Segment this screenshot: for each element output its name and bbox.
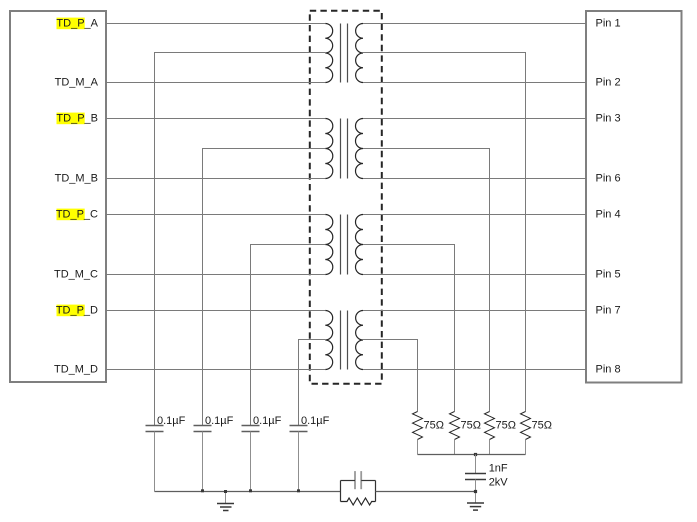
- svg-text:Pin 7: Pin 7: [596, 305, 621, 317]
- wire TD_P_C to T3 primary top: [106, 214, 325, 216]
- wire TD_M_C to T3 primary bottom: [106, 274, 325, 276]
- svg-text:Pin 5: Pin 5: [596, 269, 621, 281]
- junction C5 lead with snubber rail: [474, 490, 477, 493]
- svg-text:Pin 1: Pin 1: [596, 18, 621, 30]
- transformer T3 core: [341, 215, 348, 275]
- wire T3 secondary top to Pin 4: [363, 214, 586, 216]
- wire T2 secondary center tap to R2: [363, 149, 490, 412]
- capacitor C1 0.1uF plates: [146, 426, 164, 432]
- svg-text:TD_M_A: TD_M_A: [55, 77, 99, 89]
- wire C2 bottom lead to ground rail: [202, 432, 204, 492]
- svg-text:75Ω: 75Ω: [424, 420, 444, 432]
- wire R4 bottom lead: [417, 440, 419, 455]
- wire R2 bottom lead: [489, 440, 491, 455]
- svg-text:1nF: 1nF: [489, 463, 508, 475]
- junction on left ground rail x=202: [201, 489, 204, 492]
- wire TD_M_D to T4 primary bottom: [106, 369, 325, 371]
- wire TD_P_B to T2 primary top: [106, 118, 325, 120]
- capacitor C3 0.1uF plates: [242, 426, 260, 432]
- svg-text:TD_P_A: TD_P_A: [56, 18, 98, 30]
- svg-text:75Ω: 75Ω: [461, 420, 481, 432]
- wire T4 primary center tap to C4: [299, 340, 326, 426]
- transformer T2 primary winding: [325, 119, 333, 179]
- wire C3 bottom lead to ground rail: [250, 432, 252, 492]
- ground symbol (right, chassis): [467, 503, 484, 510]
- svg-text:TD_P_C: TD_P_C: [56, 209, 98, 221]
- transformer T3 secondary winding: [356, 215, 364, 275]
- wire TD_P_D to T4 primary top: [106, 310, 325, 312]
- wire T2 primary center tap to C2: [203, 149, 326, 426]
- capacitor C4 0.1uF plates: [290, 426, 308, 432]
- transformer T4 secondary winding: [356, 311, 363, 370]
- capacitor C2 0.1uF plates: [194, 426, 212, 432]
- resistor R2 75 ohm: [485, 412, 495, 440]
- svg-text:0.1µF: 0.1µF: [205, 415, 234, 427]
- wire TD_M_B to T2 primary bottom: [106, 178, 325, 180]
- wire T2 secondary top to Pin 3: [363, 118, 586, 120]
- transformer T4 primary winding: [325, 311, 332, 370]
- resistor R4 75 ohm: [413, 412, 423, 440]
- left device box: [10, 11, 106, 382]
- svg-text:2kV: 2kV: [489, 476, 509, 488]
- highlight for TD_P_D label: [57, 305, 85, 317]
- wire T3 secondary center tap to R3: [363, 245, 455, 412]
- wire R1 bottom lead: [525, 440, 527, 455]
- junction ground stub on left rail: [224, 490, 227, 493]
- svg-text:75Ω: 75Ω: [496, 420, 516, 432]
- junction on left ground rail x=250: [249, 489, 252, 492]
- wire C4 bottom lead to ground rail: [298, 432, 300, 492]
- highlight for TD_P_C label: [57, 209, 85, 221]
- wire T2 secondary bottom to Pin 6: [363, 178, 586, 180]
- right connector box: [586, 11, 682, 383]
- wire C1 bottom lead to ground rail: [154, 432, 156, 492]
- wire C5 bottom to ground: [475, 480, 477, 504]
- svg-text:0.1µF: 0.1µF: [301, 415, 330, 427]
- wire rail into snubber: [340, 491, 376, 493]
- svg-text:TD_M_B: TD_M_B: [55, 173, 98, 185]
- svg-text:Pin 8: Pin 8: [596, 364, 621, 376]
- highlight for TD_P_A label: [57, 18, 85, 30]
- transformer T3 primary winding: [325, 215, 333, 275]
- wire T1 secondary center tap to R1: [363, 53, 526, 412]
- svg-text:0.1µF: 0.1µF: [253, 415, 282, 427]
- resistor R3 75 ohm: [450, 412, 460, 440]
- snubber network outline (parallel RC): [341, 481, 376, 502]
- highlight for TD_P_B label: [57, 113, 85, 125]
- svg-text:TD_M_D: TD_M_D: [54, 364, 98, 376]
- wire R3 bottom lead: [454, 440, 456, 455]
- wire T3 primary center tap to C3: [251, 245, 326, 426]
- junction on left ground rail x=298: [297, 489, 300, 492]
- wire TD_M_A to T1 primary bottom: [106, 82, 325, 84]
- svg-text:Pin 6: Pin 6: [596, 173, 621, 185]
- transformer module dashed outline T1: [310, 11, 382, 384]
- transformer T2 secondary winding: [356, 119, 364, 179]
- svg-text:75Ω: 75Ω: [532, 420, 552, 432]
- wire rail to C5 top: [475, 455, 477, 474]
- wire T1 primary center tap to C1: [155, 53, 326, 426]
- transformer T1 secondary winding: [356, 24, 363, 83]
- wire snubber cap top branch: [341, 480, 376, 482]
- wire termination rail joining R1-R4: [418, 454, 526, 456]
- wire bottom ground rail (left): [155, 491, 341, 493]
- svg-text:Pin 2: Pin 2: [596, 77, 621, 89]
- svg-text:TD_P_D: TD_P_D: [56, 305, 98, 317]
- capacitor (snubber) plates: [355, 471, 361, 489]
- resistor (snubber) zigzag: [341, 498, 376, 505]
- resistor R1 75 ohm: [521, 412, 531, 440]
- junction rail to C5: [474, 453, 477, 456]
- svg-text:0.1µF: 0.1µF: [157, 415, 186, 427]
- svg-text:TD_P_B: TD_P_B: [56, 113, 98, 125]
- transformer T1 core: [341, 24, 348, 83]
- transformer T2 core: [341, 119, 348, 179]
- transformer T4 core: [341, 311, 348, 370]
- svg-text:TD_M_C: TD_M_C: [54, 269, 98, 281]
- svg-text:Pin 4: Pin 4: [596, 209, 621, 221]
- wire T4 secondary top to Pin 7: [363, 310, 586, 312]
- svg-text:Pin 3: Pin 3: [596, 113, 621, 125]
- ground symbol (left rail): [217, 492, 234, 511]
- wire T4 secondary bottom to Pin 8: [363, 369, 586, 371]
- wire T4 secondary center tap to R4: [363, 340, 418, 412]
- transformer T1 primary winding: [325, 24, 332, 83]
- wire snubber to 1nF node: [376, 491, 476, 493]
- wire TD_P_A to T1 primary top: [106, 23, 325, 25]
- capacitor C5 1nF 2kV plates: [465, 474, 486, 480]
- wire T1 secondary top to Pin 1: [363, 23, 586, 25]
- wire T1 secondary bottom to Pin 2: [363, 82, 586, 84]
- wire T3 secondary bottom to Pin 5: [363, 274, 586, 276]
